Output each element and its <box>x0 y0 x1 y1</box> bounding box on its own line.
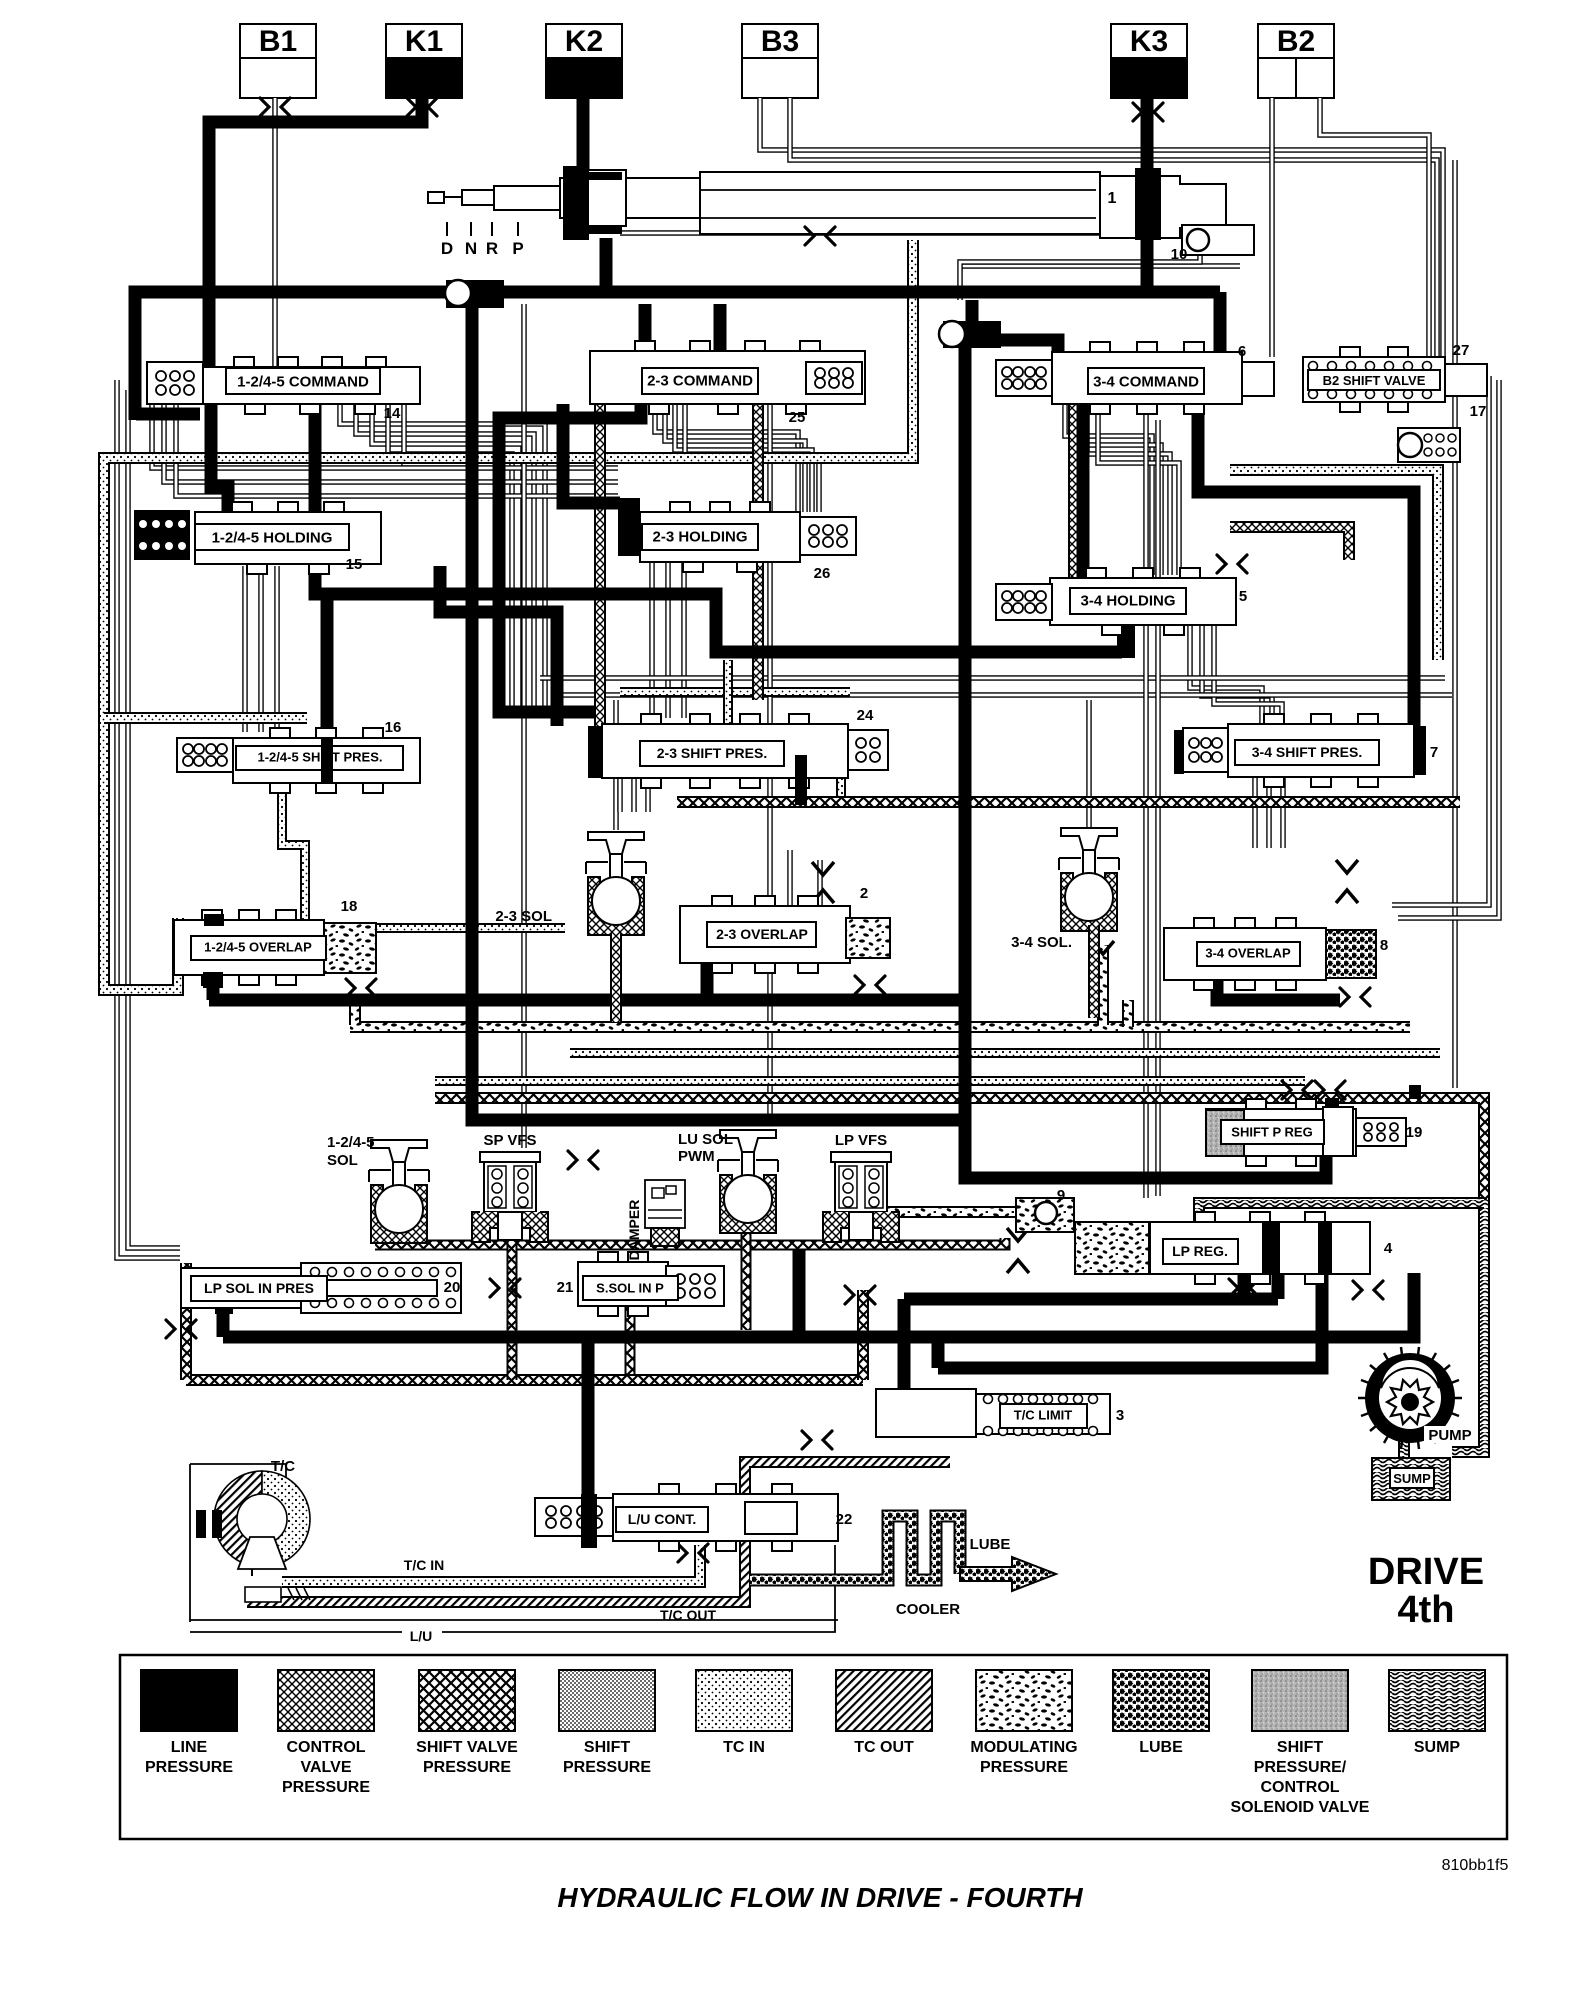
svg-text:3-4 HOLDING: 3-4 HOLDING <box>1080 592 1175 609</box>
valve 3-4 OVERLAP <box>1194 918 1214 928</box>
solenoid rail <box>375 1238 1005 1245</box>
svg-text:B1: B1 <box>259 25 297 58</box>
svg-text:B2 SHIFT VALVE: B2 SHIFT VALVE <box>1323 373 1426 388</box>
svg-text:3-4 COMMAND: 3-4 COMMAND <box>1093 373 1199 390</box>
svg-text:3-4 OVERLAP: 3-4 OVERLAP <box>1205 946 1291 961</box>
choke lp frame <box>166 1320 196 1338</box>
control valve pipe 2-3b drop <box>752 404 764 700</box>
svg-text:26: 26 <box>814 565 831 582</box>
line pressure lower bus <box>209 994 965 1007</box>
box K3 <box>1111 24 1187 58</box>
svg-text:LP REG.: LP REG. <box>1172 1243 1228 1259</box>
solenoid SP VFS <box>480 1152 540 1162</box>
tc in pipe shift pres right elbow <box>841 777 960 803</box>
control valve pipe 3-4 right <box>1230 527 1349 560</box>
valve 3-4 HOLDING <box>1086 568 1106 578</box>
legend swatch TC IN <box>696 1670 792 1731</box>
svg-text:20: 20 <box>444 1279 461 1296</box>
pipe 2-3 sol drain <box>610 933 622 1022</box>
choke shiftpreg pair <box>1282 1081 1312 1099</box>
wire left frame <box>117 380 180 1258</box>
line pressure 2-3 overlap drop <box>701 960 714 1000</box>
tc out pipe <box>247 1462 950 1602</box>
box B2 <box>1258 24 1334 58</box>
line pressure cmd bottom bus <box>315 404 1122 652</box>
svg-text:PRESSURE: PRESSURE <box>563 1759 651 1776</box>
svg-text:L/U: L/U <box>410 1628 433 1644</box>
svg-text:SOL: SOL <box>327 1152 358 1169</box>
svg-text:T/C: T/C <box>271 1458 295 1475</box>
svg-text:SHIFT: SHIFT <box>584 1739 630 1756</box>
ball check 17 <box>1398 428 1460 462</box>
svg-text:21: 21 <box>557 1279 574 1296</box>
tc side tabs <box>196 1510 206 1538</box>
svg-text:SHIFT VALVE: SHIFT VALVE <box>416 1739 518 1756</box>
svg-text:24: 24 <box>857 707 874 724</box>
valve LP SOL IN PRES <box>181 1268 301 1308</box>
svg-text:2-3 OVERLAP: 2-3 OVERLAP <box>716 926 808 942</box>
valve SHIFT P REG <box>1246 1099 1266 1109</box>
svg-text:SHIFT: SHIFT <box>1277 1739 1323 1756</box>
line pressure node13 out <box>1001 340 1058 355</box>
svg-text:SHIFT P REG: SHIFT P REG <box>1231 1125 1312 1140</box>
shift valve pressure band lower <box>435 1098 1484 1200</box>
svg-text:2-3 HOLDING: 2-3 HOLDING <box>652 528 747 545</box>
wire right tall loop <box>1452 160 1458 1088</box>
valve B2 SHIFT VALVE <box>1340 347 1360 357</box>
wire B1 feed <box>272 98 278 368</box>
legend swatch CONTROL <box>278 1670 374 1731</box>
svg-text:1-2/4-5 OVERLAP: 1-2/4-5 OVERLAP <box>204 940 312 955</box>
svg-text:7: 7 <box>1430 744 1438 761</box>
svg-text:4: 4 <box>1384 1240 1393 1257</box>
svg-text:15: 15 <box>346 556 363 573</box>
svg-text:3: 3 <box>1116 1407 1124 1424</box>
vee arrows 3-4 sol <box>1092 941 1114 954</box>
choke K1 <box>407 98 437 116</box>
svg-text:LINE: LINE <box>171 1739 208 1756</box>
cooler coil <box>750 1516 960 1580</box>
solenoid LU SOL PWM <box>720 1130 776 1152</box>
line pressure bottom bus A <box>223 1273 1414 1337</box>
tc in pipe 2-3 shift pres top <box>620 687 850 697</box>
valve 2-3 SHIFT PRES <box>641 714 661 724</box>
box K1 <box>386 24 462 58</box>
manual valve handle <box>428 192 444 203</box>
svg-text:6: 6 <box>1238 343 1246 360</box>
choke inside valve run <box>805 227 835 245</box>
svg-text:3-4 SHIFT PRES.: 3-4 SHIFT PRES. <box>1252 744 1362 760</box>
svg-text:CONTROL: CONTROL <box>1260 1779 1339 1796</box>
svg-text:3-4 SOL.: 3-4 SOL. <box>1011 934 1072 951</box>
tc in pipe right loop <box>1230 470 1438 660</box>
svg-text:P: P <box>512 239 523 258</box>
svg-text:19: 19 <box>1406 1124 1423 1141</box>
manual valve spool lands <box>563 166 589 240</box>
line pressure shift p reg lower <box>1409 1085 1421 1099</box>
svg-text:2-3 SHIFT PRES.: 2-3 SHIFT PRES. <box>657 745 767 761</box>
svg-text:PWM: PWM <box>678 1148 715 1165</box>
svg-text:SP VFS: SP VFS <box>483 1132 536 1149</box>
legend swatch LINE <box>141 1670 237 1731</box>
svg-text:PUMP: PUMP <box>1428 1427 1471 1444</box>
tc in band a <box>570 1048 1440 1058</box>
svg-text:1-2/4-5 HOLDING: 1-2/4-5 HOLDING <box>212 529 333 546</box>
svg-text:VALVE: VALVE <box>301 1759 352 1776</box>
wire LU line <box>190 1619 838 1621</box>
svg-text:TC OUT: TC OUT <box>854 1739 914 1756</box>
pipe 3-4 sol drain <box>1088 925 1100 1018</box>
node 13 riser <box>966 300 979 325</box>
valve 1-2/4-5 COMMAND <box>234 357 254 367</box>
svg-text:R: R <box>486 239 498 258</box>
torque converter <box>214 1471 262 1567</box>
svg-text:LP SOL IN PRES: LP SOL IN PRES <box>204 1280 314 1296</box>
line pressure long center vertical <box>965 348 1326 1178</box>
wire node13 side <box>962 263 1240 269</box>
svg-text:2: 2 <box>860 885 868 902</box>
svg-text:HYDRAULIC FLOW IN DRIVE - FOUR: HYDRAULIC FLOW IN DRIVE - FOURTH <box>557 1882 1083 1913</box>
wire overlaps top <box>787 850 793 906</box>
choke K3 <box>1133 103 1163 121</box>
solenoid 3-4 SOL <box>1061 828 1117 850</box>
solenoid 2-3 SOL <box>588 832 644 854</box>
wire holding1 bottoms <box>242 566 248 732</box>
box B1 <box>240 24 316 58</box>
legend swatch MODULATING <box>976 1670 1072 1731</box>
line pressure node11 drop <box>472 300 965 1120</box>
valve LP REG <box>1195 1212 1215 1222</box>
svg-text:1-2/4-5: 1-2/4-5 <box>327 1134 375 1151</box>
svg-text:PRESSURE: PRESSURE <box>980 1759 1068 1776</box>
line pressure bottom bus B <box>904 1293 1278 1306</box>
svg-text:LUBE: LUBE <box>970 1536 1011 1553</box>
line pressure 2-3 cmd to shift pres <box>499 404 641 712</box>
svg-text:1-2/4-5 SHIFT PRES.: 1-2/4-5 SHIFT PRES. <box>258 750 383 765</box>
svg-text:PRESSURE: PRESSURE <box>145 1759 233 1776</box>
vee arrows 2-3 overlap <box>812 862 834 875</box>
svg-text:N: N <box>465 239 477 258</box>
line pressure LU cont drop <box>582 1337 595 1500</box>
ball check 9 <box>1016 1198 1074 1232</box>
shift valve pressure lp frame <box>180 1263 192 1380</box>
svg-text:22: 22 <box>836 1511 853 1528</box>
svg-text:TC IN: TC IN <box>723 1739 765 1756</box>
svg-text:SOLENOID VALVE: SOLENOID VALVE <box>1231 1799 1370 1816</box>
pump <box>1358 1347 1462 1449</box>
solenoid LP VFS <box>831 1152 891 1162</box>
modulating pipe riser <box>1122 1000 1134 1027</box>
line pressure K1 branch <box>209 98 422 368</box>
wire B2 feeds <box>1269 98 1275 357</box>
svg-text:DAMPER: DAMPER <box>626 1200 642 1261</box>
solenoid 1-2/4-5 SOL <box>371 1140 427 1162</box>
sump right frame <box>1452 1200 1484 1452</box>
svg-text:LUBE: LUBE <box>1139 1739 1183 1756</box>
svg-text:K2: K2 <box>565 25 603 58</box>
tc in pipe 1-2/4-5 loop <box>282 783 565 928</box>
svg-text:T/C IN: T/C IN <box>404 1557 444 1573</box>
box B3 <box>742 24 818 58</box>
legend swatch LUBE <box>1113 1670 1209 1731</box>
control valve pipe 3-4 drop <box>1068 404 1080 580</box>
sump <box>1372 1458 1450 1500</box>
wire fan 25 <box>655 404 798 512</box>
wire holding to shift pres <box>1190 625 1262 724</box>
svg-text:CONTROL: CONTROL <box>286 1739 365 1756</box>
svg-text:COOLER: COOLER <box>896 1601 960 1618</box>
svg-text:K3: K3 <box>1130 25 1168 58</box>
choke 3-4 holding <box>1217 555 1247 573</box>
line pressure main bus <box>135 292 1220 420</box>
svg-text:14: 14 <box>384 405 401 422</box>
svg-text:S.SOL IN P: S.SOL IN P <box>596 1281 664 1296</box>
manual valve right step outline <box>1100 176 1226 238</box>
svg-text:1: 1 <box>1108 190 1117 207</box>
choke B1 <box>260 98 290 116</box>
line pressure cmd1 feeds <box>639 304 652 351</box>
wire left nest <box>152 404 618 468</box>
legend swatch SHIFT VALVE <box>419 1670 515 1731</box>
choke lu cont <box>678 1544 708 1562</box>
valve 1-2/4-5 HOLDING <box>232 502 252 512</box>
line pressure bottom bus C <box>938 1273 1322 1368</box>
svg-text:16: 16 <box>385 719 402 736</box>
control valve pipe 2-3 drop <box>594 404 606 778</box>
svg-text:PRESSURE: PRESSURE <box>282 1779 370 1796</box>
modulating pipe lp vfs <box>885 1206 1030 1218</box>
svg-text:810bb1f5: 810bb1f5 <box>1442 1857 1509 1874</box>
svg-text:T/C OUT: T/C OUT <box>660 1607 716 1623</box>
ball check 10 <box>1182 225 1254 255</box>
svg-text:17: 17 <box>1470 403 1487 420</box>
choke ssol riser <box>845 1286 875 1304</box>
tc in pipe manual valve drop <box>104 240 913 990</box>
manual valve inner lines <box>700 189 1096 191</box>
choke lp reg right <box>1353 1281 1383 1299</box>
line pressure K2 branch <box>577 98 590 170</box>
svg-text:27: 27 <box>1453 342 1470 359</box>
svg-text:10: 10 <box>1171 246 1188 263</box>
tc in pipe shift pres branch <box>104 712 307 724</box>
box K2 <box>546 24 622 58</box>
vee arrows ball9 <box>1007 1228 1029 1241</box>
legend swatch SHIFT <box>1252 1670 1348 1731</box>
DNRP ticks <box>446 222 448 236</box>
svg-text:K1: K1 <box>405 25 443 58</box>
svg-text:2-3 COMMAND: 2-3 COMMAND <box>647 372 753 389</box>
choke 20 <box>490 1279 520 1297</box>
line pressure 3-4 cmd right branch <box>1198 404 1414 730</box>
damper <box>645 1180 685 1228</box>
lube arrow <box>960 1557 1056 1591</box>
valve 3-4 SHIFT PRES <box>1264 714 1284 724</box>
svg-text:9: 9 <box>1057 1187 1065 1204</box>
legend swatch TC OUT <box>836 1670 932 1731</box>
svg-text:T/C LIMIT: T/C LIMIT <box>1014 1408 1073 1423</box>
svg-text:2-3 SOL: 2-3 SOL <box>495 908 552 925</box>
choke overlap3 <box>1340 988 1370 1006</box>
shift valve pressure band bottom <box>186 1374 863 1386</box>
node 11 <box>446 280 504 308</box>
choke right low <box>1229 1279 1259 1297</box>
svg-text:5: 5 <box>1239 588 1247 605</box>
svg-text:4th: 4th <box>1398 1589 1455 1631</box>
svg-text:8: 8 <box>1380 937 1388 954</box>
tc in band b <box>435 1076 1305 1086</box>
svg-text:LP VFS: LP VFS <box>835 1132 887 1149</box>
wire shift pres bottoms <box>617 777 623 812</box>
valve L/U CONT <box>659 1484 679 1494</box>
vee arrows 3-4 overlap <box>1336 860 1358 873</box>
svg-text:DRIVE: DRIVE <box>1368 1551 1484 1593</box>
svg-text:PRESSURE: PRESSURE <box>423 1759 511 1776</box>
valve T/C LIMIT <box>876 1389 976 1437</box>
valve S SOL IN P <box>598 1252 618 1262</box>
choke overlap2 <box>855 976 885 994</box>
line pressure 1-2/4-5 command to holding <box>211 404 228 512</box>
modulating pipe main <box>350 1021 1410 1033</box>
manual valve body <box>494 186 578 210</box>
wire holding2 bottoms <box>649 562 655 718</box>
line pressure 3-4 overlap drop <box>1217 968 1340 1000</box>
svg-text:LU SOL: LU SOL <box>678 1131 733 1148</box>
svg-text:18: 18 <box>341 898 358 915</box>
shift valve pressure band mid <box>677 796 1460 808</box>
svg-text:SUMP: SUMP <box>1393 1471 1431 1486</box>
wire long center verticals <box>521 304 527 1148</box>
choke overlap1 <box>346 979 376 997</box>
valve 3-4 COMMAND <box>1090 342 1110 352</box>
valve 2-3 COMMAND <box>635 341 655 351</box>
solenoid rail drops <box>507 1226 518 1380</box>
choke spvfs <box>568 1151 598 1169</box>
svg-text:L/U CONT.: L/U CONT. <box>628 1511 696 1527</box>
manual valve K3 land <box>1135 168 1161 240</box>
line pressure 3-4 cmd to 3-4 holding <box>1077 404 1090 582</box>
wire fan 14 <box>340 404 545 716</box>
svg-text:D: D <box>441 239 453 258</box>
wire fan 3-4 cmd <box>1065 404 1152 575</box>
line pressure ssol riser <box>793 1250 806 1337</box>
line pressure LP REG risers <box>1238 1273 1251 1299</box>
line pressure K3 branch <box>1141 98 1154 298</box>
node 11 ball <box>445 280 471 306</box>
svg-text:MODULATING: MODULATING <box>970 1739 1077 1756</box>
choke tclimit <box>802 1431 832 1449</box>
wire manual to ball 10 <box>620 230 1182 236</box>
legend box <box>120 1655 1507 1839</box>
valve 1-2/4-5 SHIFT PRES <box>270 728 290 738</box>
torque converter frame <box>190 1463 286 1465</box>
svg-text:25: 25 <box>789 409 806 426</box>
node 13 ball <box>939 321 965 347</box>
wire B3 feeds <box>760 98 1443 376</box>
sump suction pipe <box>1199 1203 1484 1222</box>
svg-text:1-2/4-5 COMMAND: 1-2/4-5 COMMAND <box>237 373 369 390</box>
tc in pipe bottom <box>282 1545 700 1582</box>
wire long mid horizontals <box>540 675 1445 681</box>
tc shaft <box>245 1587 281 1602</box>
valve 1-2/4-5 OVERLAP <box>202 910 222 920</box>
legend swatch SHIFT <box>559 1670 655 1731</box>
svg-text:SUMP: SUMP <box>1414 1739 1461 1756</box>
svg-text:B3: B3 <box>761 25 799 58</box>
legend swatch SUMP <box>1389 1670 1485 1731</box>
line pressure holding2 right line <box>440 566 557 726</box>
line pressure shift pres feed <box>321 594 334 742</box>
line pressure 2-3 cmd to 2-3 holding <box>563 404 620 503</box>
valve 2-3 OVERLAP <box>712 896 732 906</box>
valve 2-3 HOLDING <box>670 502 690 512</box>
svg-text:B2: B2 <box>1277 25 1315 58</box>
svg-text:PRESSURE/: PRESSURE/ <box>1254 1759 1347 1776</box>
